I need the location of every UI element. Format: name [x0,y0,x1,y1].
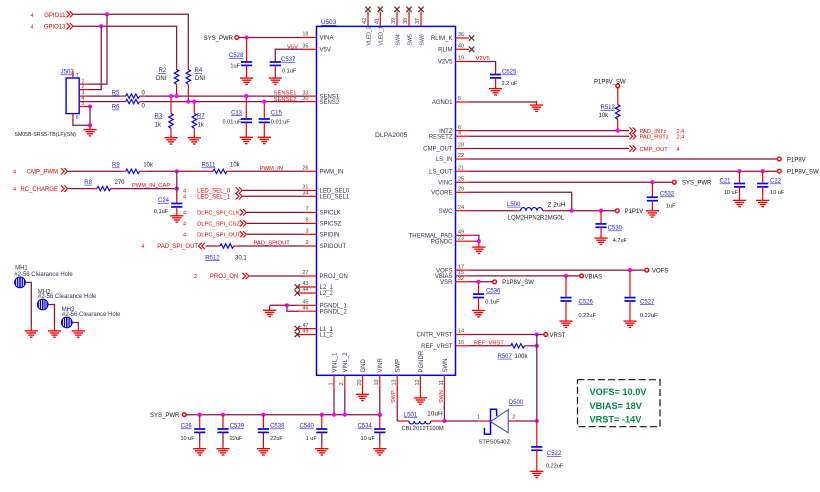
svg-text:SENSE1: SENSE1 [274,91,297,97]
svg-text:35: 35 [302,44,308,50]
resistor R7 1k [193,102,195,114]
wire SENSE1 net [89,95,121,97]
capacitor C536 plates [473,294,484,297]
wire DLPC_SPI_OUT to IC [247,233,304,235]
capacitor C540 1 uF [321,415,323,429]
resistor R513 zigzag [616,105,620,120]
svg-text:13: 13 [392,379,398,385]
svg-text:SWP: SWP [396,359,402,373]
pin 20 GND stub [362,375,364,389]
capacitor C538 plates [258,429,269,432]
svg-text:CBL2012T100M: CBL2012T100M [402,426,444,432]
svg-text:PGNDC: PGNDC [431,239,453,245]
pin 27 PROJ_ON stub [304,275,317,277]
terminal SYS_PWR right [672,180,676,184]
capacitor C537 plates [270,62,281,65]
J503 pin 6 stub [72,114,74,119]
svg-text:10: 10 [374,379,380,385]
junction C26 rail [198,413,202,417]
pin 15 VBIAS stub [456,275,470,277]
pin 19 V2V5 stub [456,61,470,63]
ground C21 [733,196,746,207]
svg-text:MH1: MH1 [15,266,28,272]
svg-text:1: 1 [477,415,480,421]
svg-text:0: 0 [142,104,146,110]
svg-text:C522: C522 [547,451,562,457]
svg-text:SPICSZ: SPICSZ [320,222,342,228]
svg-text:C536: C536 [486,289,501,295]
svg-text:0.22uF: 0.22uF [579,313,597,319]
svg-text:R2: R2 [159,68,167,74]
capacitor C525 plates [490,75,501,78]
pin 43 L2_1 stub [299,286,317,288]
wire C534 bottom lead [379,432,381,444]
pin 10 VINR stub [379,375,381,389]
ground J503 [83,125,96,136]
svg-text:36: 36 [458,32,464,38]
wire J503 pin 6 to ground [73,119,90,125]
wire THERMAL_PAD to PGNDC junction [475,235,479,241]
svg-text:SYS_PWR: SYS_PWR [682,181,712,187]
pin 1 VINL_1 stub [333,375,335,389]
junction SWN / L501 / D500 [442,419,446,423]
junction C530 [599,209,603,213]
pin 34 LED_SEL1 stub [304,195,317,197]
svg-text:0.01 uF: 0.01 uF [223,119,243,125]
svg-text:VLED_2: VLED_2 [366,26,372,45]
ground PGNDL [263,306,276,317]
svg-text:2: 2 [194,274,197,280]
inductor L500 coil [521,208,543,211]
off-page connector GPIO13 [67,23,74,29]
svg-text:0.1uF: 0.1uF [154,209,169,215]
pin 14 CNTR_VRST stub [456,334,470,336]
wire SWN down [443,387,445,402]
no-connect X pin 48 [295,332,300,337]
wire CNTR_VRST to VRST terminal [469,334,544,336]
junction VINR rail [378,413,382,417]
svg-text:VBIAS= 18V: VBIAS= 18V [590,401,643,411]
terminal SYS_PWR bottom [182,413,186,417]
svg-text:RC_CHARGE: RC_CHARGE [20,187,58,193]
capacitor C532 plates [647,197,658,200]
ground C532 [646,207,659,218]
J503 pin 7 stub [72,71,74,78]
svg-text:R513: R513 [601,105,616,111]
pin 18 VINA stub [304,37,317,39]
svg-text:R507: R507 [498,354,513,360]
wire C26 bottom lead [199,432,201,444]
wire L500 right lead [543,210,548,212]
ground C530 [594,234,607,245]
capacitor C26 plates [194,429,205,432]
capacitor C24 plates [171,204,182,207]
svg-text:C538: C538 [270,424,285,430]
wire R507 left lead [506,345,511,347]
svg-text:4: 4 [13,170,16,176]
svg-text:#2-56 Clearance Hole: #2-56 Clearance Hole [62,312,121,318]
svg-text:VRST: VRST [550,333,566,339]
svg-text:4: 4 [30,13,33,19]
wire VINC to SYS_PWR [469,181,672,183]
svg-text:C537: C537 [281,57,296,63]
svg-text:7: 7 [305,207,308,213]
svg-text:2: 2 [339,382,345,385]
junction GPIO11 / J503 pin1 [105,12,109,16]
pin 36 RLIM_K stub [456,37,470,39]
junction D500 / C522 / VRST [535,419,539,423]
terminal VRST [544,333,548,337]
wire SYS_PWR to VINA pin 18 [239,37,304,39]
capacitor C13 plates [241,119,252,122]
resistor R8 [97,186,111,190]
pin 3 SPIDIN stub [304,233,317,235]
svg-text:R9: R9 [112,163,120,169]
wire GPIO11 to R4 [73,14,188,64]
no-connect X pin 42 [365,7,370,12]
svg-text:11: 11 [439,380,445,386]
svg-text:C24: C24 [158,198,170,204]
junction GPIO13 / J503 pin2 [99,24,103,28]
svg-text:2,4: 2,4 [677,135,685,141]
ground R7 [188,133,201,144]
mounting hole MH1 [15,277,26,288]
svg-text:GND: GND [361,359,367,373]
pin 24 SWC stub [456,210,470,212]
no-connect X pin 36 [469,35,474,40]
wire VINL_1 down [333,389,335,415]
svg-text:1: 1 [328,382,334,385]
svg-text:22uF: 22uF [230,436,243,442]
ground PGNDR pin 12 [414,394,427,405]
ground MH2 [48,327,61,338]
off-page connector DLPC_SPI_OUT [240,231,247,237]
no-connect X pin 41 [378,7,383,12]
svg-text:REF_VRST: REF_VRST [474,340,505,346]
pin 48 L1_2 stub [299,334,317,336]
capacitor C525 2.2uF [495,70,497,75]
ground C26 [193,444,206,455]
svg-text:C539: C539 [230,424,245,430]
capacitor C22 plates [757,184,768,187]
junction THERMAL_PAD / PGNDC [477,239,481,243]
svg-text:PROJ_ON: PROJ_ON [210,274,238,280]
svg-text:26: 26 [302,166,308,172]
wire C528 bottom lead [246,65,248,73]
svg-text:L500: L500 [507,202,521,208]
ground R3 [164,133,177,144]
svg-text:4: 4 [141,244,144,250]
wire R512 right lead [234,245,239,247]
svg-text:SPICLK: SPICLK [320,211,341,217]
svg-text:5: 5 [458,96,461,102]
svg-text:AGND1: AGND1 [432,100,453,106]
svg-text:22uF: 22uF [270,436,283,442]
ground GND pin 20 [356,390,369,401]
capacitor C538 22uF [262,415,264,429]
ground C539 [216,444,229,455]
wire R513 bottom lead [617,120,619,131]
svg-text:22: 22 [458,153,464,159]
capacitor C528 plates [241,62,252,65]
capacitor C15 0.01uF [263,102,265,119]
pin 49 THERMAL_PAD stub [456,234,475,236]
svg-text:14: 14 [458,329,464,335]
pin 22 LS_IN stub [456,158,470,160]
capacitor C539 22uF [222,415,224,429]
svg-text:VRST= -14V: VRST= -14V [590,415,643,425]
op-amp U503 DLPA2005 IC body [317,26,456,375]
svg-text:VINL_1: VINL_1 [332,352,338,373]
ground C534 [373,444,386,455]
junction PGNDL [285,303,289,307]
wire R6 right lead [140,101,145,103]
svg-text:R511: R511 [202,163,217,169]
wire R8 left lead [92,188,97,190]
svg-text:C528: C528 [229,53,244,59]
terminal VOFS [645,268,649,272]
svg-text:270: 270 [115,180,126,186]
wire L500 to P1P1V [548,210,616,212]
off-page connector LED_SEL_0 [236,187,243,193]
svg-text:SYS_PWR: SYS_PWR [204,36,234,42]
no-connect X pin 37 [418,7,423,12]
svg-text:10 uF: 10 uF [724,190,739,196]
wire VRST vertical [536,335,538,422]
terminal P1P8V_SW VSR [493,280,497,284]
wire PAD_SPI_OUT to R512 [206,245,216,247]
capacitor C21 plates [734,184,745,187]
wire V5V net from pin 35 [275,49,303,62]
svg-text:P1P8V_SW: P1P8V_SW [502,280,534,286]
capacitor C530 4.7uF [600,211,602,224]
svg-text:PWM_IN: PWM_IN [260,166,283,172]
junction PWM_IN_CAP / CMP_PWM [175,169,179,173]
svg-text:PAD_SPIOUT: PAD_SPIOUT [254,241,291,247]
svg-text:DNI: DNI [156,76,167,82]
svg-text:10uH: 10uH [427,411,443,418]
pin 45 PGNDL_1 stub [299,304,317,306]
svg-text:SWN: SWN [439,390,445,403]
wire C13 bottom lead [245,122,247,133]
pin 25 VINC stub [456,181,470,183]
svg-text:C534: C534 [357,424,372,430]
svg-text:37: 37 [415,18,421,24]
svg-text:CMP_OUT: CMP_OUT [640,147,669,153]
capacitor C532 1uF [651,182,653,197]
svg-text:10 uF: 10 uF [770,190,785,196]
svg-text:8: 8 [305,218,308,224]
pin 12 PGNDR stub [419,375,421,389]
svg-text:LED_SEL_1: LED_SEL_1 [197,195,231,201]
wire R4 top lead [187,65,189,70]
svg-text:SW6: SW6 [419,34,425,45]
J503 pin 3 stub [79,95,89,97]
svg-text:30.1: 30.1 [235,255,247,261]
wire SYS_PWR rail [186,414,379,416]
no-connect X pin 39 [394,7,399,12]
svg-text:PGNDR: PGNDR [419,350,425,372]
svg-text:C21: C21 [720,179,732,185]
svg-text:4: 4 [458,130,461,136]
wire SWC to L500 [469,210,516,212]
svg-text:1k: 1k [155,123,162,129]
wire RC_CHARGE to R8 [68,188,92,190]
svg-text:5: 5 [82,101,85,107]
svg-text:DLPC_SPI_OUT: DLPC_SPI_OUT [197,233,241,239]
capacitor C22 10uF [762,171,764,183]
svg-text:18: 18 [302,32,308,38]
svg-text:10 uF: 10 uF [360,436,375,442]
ground AGND1 [530,101,543,112]
junction R513 / PAD_INTz [616,129,620,133]
capacitor C536 0.1uF [478,282,480,294]
pin 8 SPICSZ stub [304,222,317,224]
wire MH1 to ground [25,282,31,326]
diode D500 STPS0540Z [484,409,508,434]
svg-text:100k: 100k [515,354,529,360]
ground C526 [559,317,572,328]
svg-text:#2-56 Clearance Hole: #2-56 Clearance Hole [38,294,97,300]
svg-text:C532: C532 [660,192,675,198]
ground MH1 [25,327,38,338]
wire AGND1 to ground [469,101,537,103]
wire MH3 to ground [72,323,78,327]
capacitor C534 plates [374,429,385,432]
junction REF_VRST / VRST vertical [535,344,539,348]
svg-text:SW4: SW4 [395,34,401,45]
off-page connector GPIO11 [67,11,74,17]
pin 28 CMP_OUT stub [456,148,470,150]
junction PWM_IN_CAP / C24 [175,187,179,191]
wire C536 bottom lead [478,298,480,307]
ground C527 [623,317,636,328]
off-page connector PAD_RSTz [629,133,636,139]
svg-text:V5V: V5V [287,44,298,50]
capacitor C13 0.01uF [245,96,247,119]
svg-text:VINL_2: VINL_2 [343,352,349,373]
terminal P1P8V [777,157,781,161]
off-page connector LED_SEL_1 [236,193,243,199]
wire R511 right lead [227,170,232,172]
pin 17 VOFS stub [456,269,470,271]
svg-text:10 uF: 10 uF [180,436,195,442]
pin 38 SW5 stub [408,12,410,27]
svg-text:D500: D500 [509,400,524,406]
junction C21 [737,169,741,173]
svg-text:0.22uF: 0.22uF [546,463,564,469]
svg-text:C540: C540 [299,424,314,430]
capacitor C26 10 uF [199,415,201,429]
junction C532 [650,180,654,184]
resistor R511 [213,169,227,173]
wire VINR down [379,389,381,415]
resistor R9 [126,169,140,173]
junction R4/SENSE2 [186,100,190,104]
svg-text:2: 2 [512,415,515,421]
svg-text:SPIDOUT: SPIDOUT [320,244,347,250]
svg-text:C15: C15 [271,110,283,116]
capacitor C540 plates [316,429,327,432]
svg-text:0.1uF: 0.1uF [282,68,297,74]
wire R8 right lead [111,188,116,190]
wire R2 top lead [176,65,178,70]
svg-text:3: 3 [305,229,308,235]
wire R511 left lead [208,170,213,172]
svg-text:DLPC_SPI_CSZ: DLPC_SPI_CSZ [197,222,240,228]
svg-text:LQM2HPN2R2MG0L: LQM2HPN2R2MG0L [508,216,565,222]
wire VINL_2 down [344,389,346,415]
ground C24 [170,212,183,223]
wire GND pin 20 lead [362,389,364,390]
off-page connector PAD_SPI_OUT [199,243,206,249]
capacitor C522 0.22uF [536,421,538,447]
off-page connector CMP_OUT [629,145,636,151]
svg-text:20: 20 [357,379,363,385]
wire LS_IN to P1P8V [469,158,777,160]
J503 pin 5 stub [79,106,89,108]
svg-text:12: 12 [415,379,421,385]
junction VCORE / SWC [570,209,574,213]
junction C15/SENSE2 [262,100,266,104]
pin 39 SW4 stub [396,12,398,27]
wire J503 pin5 down [89,107,91,126]
wire LED_SEL_1 to IC [243,195,304,197]
wire C527 bottom lead [629,301,631,317]
wire R9 to R511 [145,170,208,172]
capacitor C530 plates [595,224,606,227]
wire C538 bottom lead [262,432,264,444]
svg-text:25: 25 [458,177,464,183]
svg-text:R4: R4 [195,68,203,74]
svg-text:SM05B-SRSS-TB(LF)(SN): SM05B-SRSS-TB(LF)(SN) [15,132,77,138]
ground C525 [489,84,502,95]
junction C538 rail [261,413,265,417]
svg-text:1uF: 1uF [230,63,240,69]
svg-text:L1_2: L1_2 [320,333,334,339]
inductor L501 10uH [397,420,409,422]
wire C530 bottom lead [600,227,602,234]
svg-text:VSR: VSR [440,280,453,286]
ground C537 [269,74,282,85]
svg-text:41: 41 [374,18,380,24]
wire PGNDL to ground [270,304,287,306]
wire C539 bottom lead [222,432,224,444]
svg-text:2: 2 [82,84,85,90]
svg-text:SWC: SWC [439,209,454,215]
svg-text:6: 6 [76,115,79,121]
svg-text:RESETZ: RESETZ [429,134,453,140]
svg-text:SWP: SWP [391,390,397,403]
svg-text:VINA: VINA [320,36,334,42]
wire C24 bottom lead [176,207,178,212]
svg-text:4: 4 [183,211,186,217]
svg-text:DLPC_SPI_CLK: DLPC_SPI_CLK [197,211,240,217]
capacitor C528 1uF [246,38,248,63]
svg-text:9: 9 [305,240,308,246]
capacitor C526 plates [560,298,571,301]
svg-text:R7: R7 [197,114,205,120]
svg-text:GPIO11: GPIO11 [44,13,66,19]
pin 47 L1_1 stub [299,328,317,330]
pin 23 PGNDC stub [456,240,475,242]
no-connect X pin 40 [469,47,474,52]
svg-text:4: 4 [30,25,33,31]
svg-text:PROJ_ON: PROJ_ON [320,274,348,280]
svg-text:V2V5: V2V5 [438,60,453,66]
ground C522 [530,467,543,478]
junction R3/SENSE1 [169,94,173,98]
